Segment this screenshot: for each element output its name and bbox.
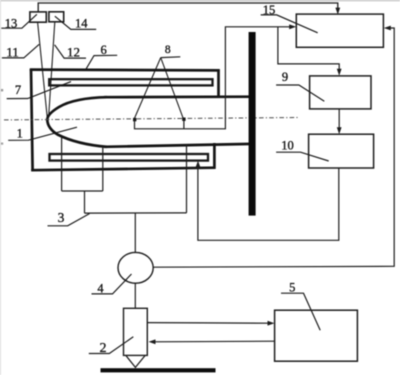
wire bridge down to supply line 3 [84, 191, 86, 213]
svg-text:11: 11 [6, 44, 19, 59]
arrowhead into block 10 top [337, 127, 342, 134]
label leader 13 [1, 14, 37, 28]
beam line 12 [49, 22, 55, 118]
arrowhead into block 15 top [335, 8, 340, 15]
beam line 11 [38, 22, 48, 119]
label leader 14 [55, 16, 96, 29]
arrowhead into block 15 right [384, 26, 391, 31]
substrate bar [249, 32, 256, 216]
svg-text:4: 4 [97, 281, 104, 295]
svg-text:10: 10 [281, 139, 294, 153]
block 5 [275, 310, 358, 361]
work table (substrate holder) [101, 368, 216, 372]
arrowhead into block 5 left [268, 321, 275, 326]
arrowhead into gun 2 right [149, 339, 156, 344]
vacuum chamber 6 (outer wall) [30, 69, 220, 171]
label leader 10 [276, 152, 329, 161]
wire crucible lead left [61, 138, 63, 192]
arrowhead into block 9 top [337, 69, 342, 76]
svg-text:13: 13 [5, 16, 18, 30]
block 10 [309, 134, 374, 168]
high voltage source 4 (circle) [118, 252, 153, 283]
svg-text:7: 7 [15, 83, 21, 97]
heater coil 7 (upper) [49, 79, 212, 85]
label leader 7 [7, 82, 71, 99]
wire gun 2 to block 5 [147, 322, 271, 325]
label leader 8 with two legs to probe dots [161, 56, 181, 59]
detector box 13 [30, 12, 46, 22]
svg-text:12: 12 [67, 44, 80, 59]
arrowhead up into lower heater coil [196, 161, 201, 167]
svg-text:3: 3 [58, 210, 65, 225]
crucible 1 (tube with dome end) [47, 97, 252, 147]
label leader 2 [89, 337, 134, 354]
svg-text:15: 15 [263, 3, 276, 17]
wire supply line 3 horizontal [85, 212, 187, 214]
arrowhead into block 15 left [289, 24, 296, 29]
label leader 12 [55, 45, 86, 58]
scan border frame [0, 0, 400, 2]
wire supply line 3 down to source 4 [134, 213, 136, 252]
wire source 4 down to gun 2 [134, 283, 136, 308]
label leader 6 [86, 55, 117, 69]
wire crucible lead right [102, 146, 104, 191]
svg-text:5: 5 [289, 281, 295, 295]
wire branch from probe bus to block 9 [278, 27, 339, 73]
heater coil (lower) [50, 154, 209, 161]
probe dot left (8) [133, 118, 136, 121]
axis centerline [4, 118, 299, 120]
svg-text:8: 8 [165, 44, 171, 56]
label leader 9 [276, 85, 324, 101]
label leader 1 [8, 127, 77, 140]
label leader 3 [48, 214, 90, 226]
label leader 15 [261, 15, 318, 33]
wire supply line 3 up to crucible [186, 145, 188, 213]
label leader 4 [92, 274, 132, 294]
arrow block 9 to block 10 [338, 109, 340, 131]
gun 2 nozzle cone [126, 355, 145, 367]
label leader 11 [2, 44, 39, 58]
svg-text:2: 2 [100, 341, 107, 356]
wire block 5 to gun 2 [151, 340, 274, 343]
probe wiring to blocks 15 and 9 [135, 27, 294, 129]
block 9 [310, 76, 371, 109]
scan speckles on left edge [1, 89, 3, 91]
detector box 14 [49, 12, 64, 22]
block 15 [296, 14, 383, 47]
wire block 10 to lower heater (arrow up into chamber) [198, 165, 339, 241]
wire crucible lead bridge [62, 190, 103, 192]
wire from probe dot right down to probe bus [183, 119, 185, 129]
svg-text:6: 6 [100, 43, 106, 57]
probe dot right (8) [182, 118, 185, 121]
electron gun 2 (column with nozzle) [124, 308, 148, 355]
label leader 5 [281, 293, 320, 330]
svg-text:1: 1 [17, 127, 23, 141]
wire source 4 to block 15 (right side loop) [153, 28, 394, 267]
wire from detector 13 to block 15 (top feedback line) [38, 3, 338, 12]
svg-text:14: 14 [75, 17, 88, 31]
svg-text:9: 9 [282, 70, 288, 84]
